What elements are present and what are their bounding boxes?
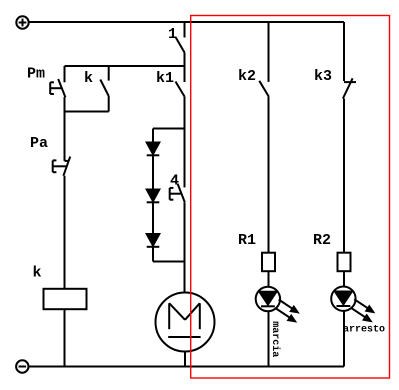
wire [152, 155, 154, 189]
terminal - [16, 360, 28, 372]
svg-text:k: k [33, 265, 42, 282]
wire diode branch bottom [153, 261, 185, 263]
motor M1 [156, 293, 215, 352]
wire coil to bottom bus [64, 309, 66, 366]
wire [152, 247, 154, 262]
diode D1 [147, 143, 160, 156]
svg-text:k1: k1 [156, 70, 174, 87]
svg-text:marcia: marcia [269, 321, 281, 357]
diode D2 [147, 190, 160, 203]
svg-text:1: 1 [168, 26, 177, 43]
wire parallel bottom [65, 111, 109, 113]
resistor R1 [262, 253, 275, 272]
wire diode branch top [153, 128, 185, 130]
wire LED2 to bottom bus [343, 311, 345, 367]
wire LED1 to bottom bus [268, 311, 270, 366]
contact k1 [176, 66, 185, 129]
LED D5 [331, 287, 373, 322]
svg-text:Pm: Pm [27, 66, 45, 83]
contact 1 [176, 22, 185, 66]
relay coil k [44, 289, 87, 309]
svg-text:4: 4 [170, 173, 179, 190]
svg-text:Pa: Pa [30, 135, 48, 152]
diode D3 [147, 234, 160, 247]
contact k2 [259, 22, 268, 253]
LED D4 [256, 287, 298, 322]
wire [152, 202, 154, 234]
wire R1 to LED [268, 271, 270, 287]
wire second rail [65, 65, 185, 67]
wire top bus [29, 21, 344, 23]
svg-text:R2: R2 [313, 232, 331, 249]
svg-text:arresto: arresto [343, 325, 385, 336]
wire to motor [184, 262, 186, 293]
contact k [100, 66, 108, 112]
svg-text:k: k [84, 70, 93, 87]
svg-text:k3: k3 [314, 68, 332, 85]
pushbutton Pm [50, 66, 65, 112]
red highlight box [191, 16, 390, 379]
svg-text:k2: k2 [238, 68, 256, 85]
pushbutton 4 [170, 129, 185, 262]
wire Pa branch [64, 112, 66, 161]
contact k3 [343, 22, 356, 253]
terminal + [16, 16, 28, 28]
wire R2 to LED [343, 271, 345, 287]
svg-text:R1: R1 [238, 232, 256, 249]
resistor R2 [338, 253, 351, 272]
wire motor to bottom bus [184, 352, 186, 367]
wire diode branch [152, 129, 154, 143]
pushbutton Pa [53, 157, 70, 289]
wire bottom bus [29, 366, 345, 368]
